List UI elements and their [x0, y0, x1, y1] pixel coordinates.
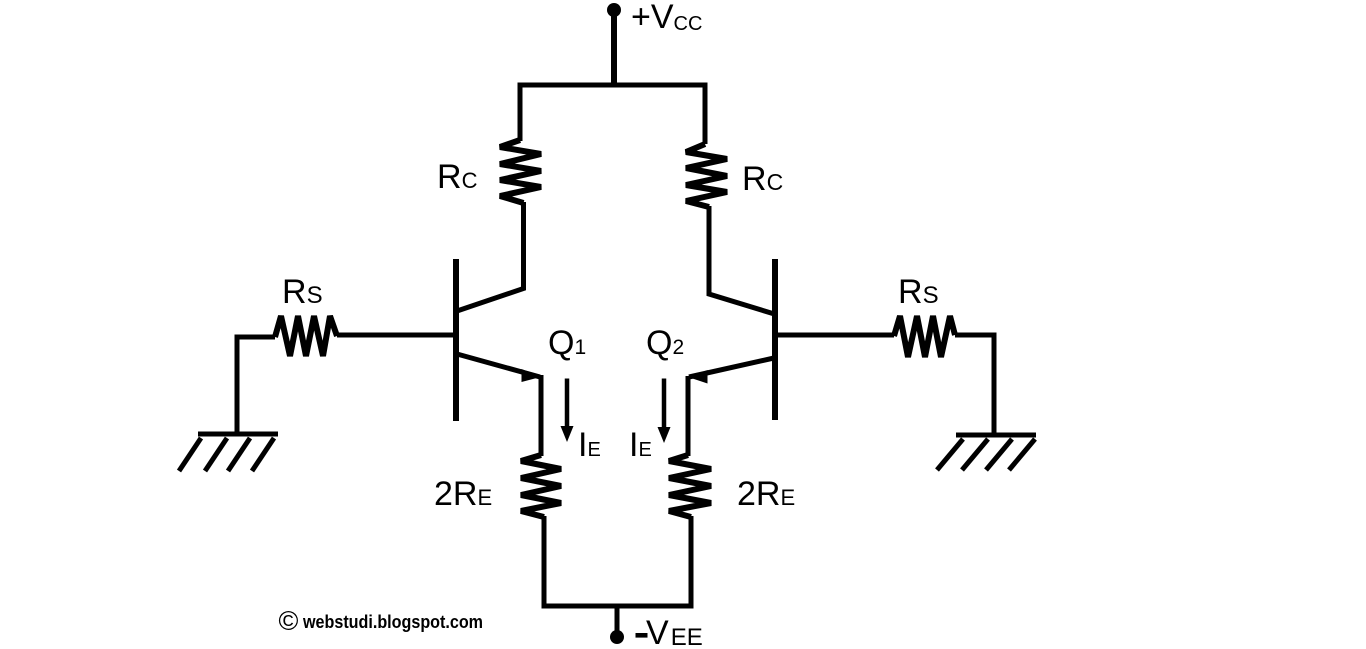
svg-text:RS: RS — [282, 273, 323, 311]
wire bottom rail — [544, 516, 691, 606]
current arrow IE (right) — [658, 379, 671, 444]
wire left input — [237, 337, 275, 433]
svg-text:©: © — [279, 606, 299, 636]
wire VEE stub — [615, 606, 620, 634]
svg-text:VEE: VEE — [646, 614, 703, 649]
label -VEE — [636, 633, 648, 638]
wire top rail — [520, 85, 705, 144]
node +VCC dot — [607, 3, 621, 17]
svg-text:Q1: Q1 — [548, 324, 586, 362]
svg-text:RS: RS — [898, 273, 939, 311]
svg-text:2RE: 2RE — [737, 475, 795, 513]
wire VCC stub — [611, 10, 617, 85]
resistor RS (right) — [894, 316, 955, 357]
wire left collector lead — [457, 202, 524, 311]
resistor 2RE (left) — [521, 455, 561, 517]
resistor RS (left) — [275, 316, 337, 356]
svg-text:webstudi.blogspot.com: webstudi.blogspot.com — [302, 612, 483, 632]
svg-text:Q2: Q2 — [646, 324, 684, 362]
transistor Q2 — [689, 259, 775, 420]
transistor Q1 — [456, 259, 541, 421]
svg-text:+VCC: +VCC — [631, 0, 702, 36]
ground (right) — [937, 435, 1036, 470]
svg-text:2RE: 2RE — [434, 475, 492, 513]
svg-text:IE: IE — [629, 426, 652, 464]
node -VEE dot — [610, 630, 624, 644]
resistor RC (right) — [686, 144, 727, 207]
ground (left) — [179, 434, 278, 471]
wire right base — [778, 333, 894, 338]
wire right collector lead — [709, 206, 776, 315]
resistor RC (left) — [500, 140, 541, 203]
svg-text:RC: RC — [437, 158, 478, 196]
current arrow IE (left) — [561, 379, 574, 443]
wire Q2 emitter drop — [686, 376, 691, 456]
svg-text:RC: RC — [742, 160, 783, 198]
resistor 2RE (right) — [669, 455, 711, 517]
wire right input — [955, 335, 994, 435]
svg-text:IE: IE — [578, 426, 601, 464]
wire Q1 emitter drop — [539, 375, 544, 456]
wire left base — [337, 333, 453, 338]
